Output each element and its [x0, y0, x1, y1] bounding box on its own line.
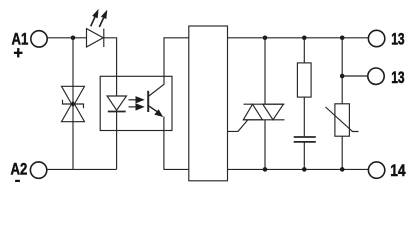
- triac V1 right triangle: [263, 104, 284, 120]
- TVS suppressor diode D2 lower triangle: [62, 102, 85, 122]
- svg-text:13: 13: [391, 68, 404, 87]
- opto coupling arrow 2: [129, 103, 145, 110]
- optocoupler U1 box: [100, 76, 172, 130]
- wire resistor to capacitor: [303, 97, 305, 136]
- wire capacitor bottom: [303, 142, 305, 170]
- terminal 14: [368, 162, 384, 178]
- wire opto LED cathode down: [116, 112, 118, 170]
- terminal A2: [30, 162, 46, 178]
- node 13 middle tap: [340, 74, 345, 79]
- node varistor top: [340, 36, 345, 41]
- TVS suppressor diode D2 zener bar: [63, 100, 84, 108]
- node varistor bottom: [340, 167, 345, 172]
- LED D1 indicator: [87, 29, 104, 47]
- driver block U2: [189, 26, 228, 181]
- wire resistor branch top: [303, 38, 305, 63]
- capacitor C1 bottom plate: [294, 141, 316, 143]
- wire emitter down: [164, 117, 189, 170]
- phototransistor Q1 emitter with arrow: [148, 106, 163, 117]
- node capacitor bottom: [302, 167, 307, 172]
- terminal 13 (top): [368, 30, 384, 46]
- opto LED triangle: [107, 96, 126, 110]
- wire top rail right: [228, 37, 369, 39]
- svg-text:13: 13: [391, 30, 404, 49]
- capacitor C1 top plate: [294, 136, 316, 138]
- resistor R1: [297, 63, 311, 97]
- phototransistor Q1 base bar: [147, 91, 149, 112]
- wire to terminal 13 middle: [342, 75, 368, 77]
- LED D1 light arrow 2: [99, 10, 107, 27]
- varistor R2 diagonal: [326, 107, 359, 132]
- wire A1 to LED: [47, 37, 86, 39]
- terminal A1: [31, 31, 47, 47]
- phototransistor Q1 collector: [148, 38, 189, 97]
- opto coupling arrow 1: [129, 96, 145, 103]
- wire bottom rail left: [47, 168, 117, 170]
- LED D1 light arrow 1: [91, 9, 99, 26]
- triac V1 bottom bar: [244, 119, 285, 121]
- svg-text:14: 14: [390, 161, 406, 180]
- node triac bottom: [263, 167, 268, 172]
- node triac top: [263, 36, 268, 41]
- triac V1 left triangle: [243, 104, 262, 120]
- wire varistor bottom: [341, 136, 343, 169]
- wire triac branch top: [264, 38, 266, 104]
- label + polarity: [14, 52, 23, 54]
- node resistor top: [302, 36, 307, 41]
- wire LED to opto: [104, 38, 117, 96]
- svg-text:A2: A2: [11, 159, 28, 178]
- triac V1 top bar: [244, 103, 285, 105]
- TVS suppressor diode D2 upper triangle: [62, 86, 85, 106]
- varistor R2 body: [335, 104, 350, 136]
- wire bottom rail right: [228, 168, 369, 170]
- node junction A1/TVS: [71, 36, 76, 41]
- node TVS center: [71, 102, 75, 106]
- LED D1 cathode bar: [103, 29, 105, 47]
- opto LED cathode bar: [108, 111, 126, 113]
- svg-text:A1: A1: [12, 29, 29, 48]
- triac gate wire: [228, 120, 248, 131]
- terminal 13 (middle): [368, 68, 384, 84]
- wire TVS branch top: [72, 38, 74, 170]
- label - polarity: [15, 180, 20, 182]
- wire triac branch bottom: [264, 120, 266, 170]
- wire varistor branch top: [341, 38, 343, 104]
